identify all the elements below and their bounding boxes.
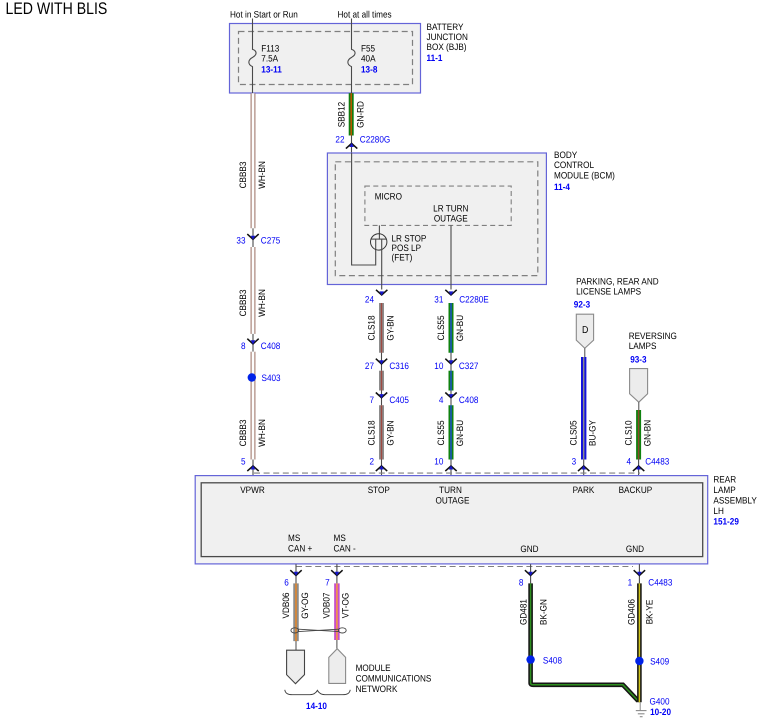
- node TURN OUTAGE: [436, 485, 470, 506]
- svg-text:10: 10: [434, 361, 443, 371]
- pin 3 of rear lamp: [572, 457, 590, 472]
- svg-text:BODY: BODY: [554, 150, 577, 160]
- svg-text:BK-YE: BK-YE: [645, 600, 655, 625]
- wire stem to left network connector: [295, 641, 297, 650]
- svg-text:C405: C405: [389, 395, 409, 405]
- wire into rear lamp pin 3: [583, 460, 585, 477]
- pin 2 of rear lamp: [369, 457, 387, 472]
- svg-text:VPWR: VPWR: [240, 485, 265, 495]
- svg-text:WH-BN: WH-BN: [257, 161, 267, 189]
- wire through C408: [252, 334, 254, 352]
- svg-text:GND: GND: [626, 544, 644, 554]
- wire CLS10 GN-BN: [636, 410, 641, 460]
- pin 24 of BCM: [365, 290, 388, 305]
- svg-text:4: 4: [439, 395, 444, 405]
- network connector right: [329, 649, 346, 684]
- wire below fuse F55: [351, 67, 353, 153]
- svg-text:C327: C327: [459, 361, 479, 371]
- body control module BCM box: [327, 153, 546, 285]
- svg-text:6: 6: [284, 577, 289, 587]
- pin 10 of rear lamp: [434, 457, 456, 472]
- wire VDB06 GY-OG label: [281, 592, 310, 619]
- wire VDB06 GY-OG: [293, 583, 299, 641]
- wire CLS55 GN-BU segment 1 label: [436, 315, 465, 341]
- wire out of pin 6: [295, 564, 297, 583]
- svg-text:POS LP: POS LP: [392, 243, 422, 253]
- svg-text:REVERSING: REVERSING: [629, 331, 677, 341]
- svg-text:7: 7: [325, 577, 330, 587]
- pin 6 of rear lamp: [284, 570, 301, 587]
- wire from connector D: [584, 348, 586, 357]
- svg-text:Hot at all times: Hot at all times: [338, 10, 392, 20]
- wire CLS05 BU-GY: [581, 357, 586, 460]
- MICRO dashed box: [365, 186, 511, 225]
- wire CLS55 GN-BU segment 2: [449, 405, 454, 459]
- svg-text:CBBB3: CBBB3: [238, 420, 248, 447]
- wire into fuse F55: [351, 19, 353, 50]
- wire from pin 22 to FET: [352, 153, 376, 265]
- svg-text:27: 27: [365, 361, 374, 371]
- svg-text:LR TURN: LR TURN: [433, 204, 468, 214]
- svg-text:C2280E: C2280E: [459, 294, 489, 304]
- svg-text:Hot in Start or Run: Hot in Start or Run: [230, 10, 298, 20]
- svg-text:VDB06: VDB06: [281, 593, 291, 619]
- splice S403: [248, 373, 281, 383]
- pin 7 of rear lamp: [325, 570, 342, 587]
- svg-text:GN-BU: GN-BU: [455, 315, 465, 341]
- svg-text:C4483: C4483: [648, 577, 672, 587]
- svg-text:SBB12: SBB12: [336, 102, 346, 127]
- wire through C408 lamp: [450, 391, 452, 406]
- connector C4483 dashed boundary bottom: [296, 566, 633, 568]
- FET label LR STOP POS LP (FET): [392, 233, 427, 262]
- svg-text:GY-BN: GY-BN: [385, 315, 395, 340]
- svg-text:92-3: 92-3: [574, 300, 590, 310]
- svg-text:CLS55: CLS55: [436, 315, 446, 340]
- wire CBBB3 WH-BN segment 3: [251, 352, 255, 460]
- wire CBBB3 WH-BN segment 2 label: [238, 289, 267, 317]
- network connector left: [287, 650, 305, 684]
- pin 8 of rear lamp: [519, 570, 536, 587]
- wire CLS18 GY-BN segment 1 label: [366, 315, 395, 340]
- svg-text:(FET): (FET): [392, 253, 413, 263]
- wire CBBB3 WH-BN segment 1 label: [238, 161, 267, 189]
- svg-text:7: 7: [369, 395, 374, 405]
- svg-text:CBBB3: CBBB3: [238, 290, 248, 317]
- wire into rear lamp pin 5: [252, 460, 254, 477]
- svg-text:MODULE (BCM): MODULE (BCM): [554, 171, 615, 181]
- brace 14-10: [285, 690, 350, 695]
- svg-text:C408: C408: [459, 395, 479, 405]
- rear lamp assembly name label: [713, 474, 757, 526]
- wire into rear lamp pin 10: [450, 460, 452, 477]
- svg-text:LR STOP: LR STOP: [392, 233, 427, 243]
- pin 7 connector C405: [369, 393, 409, 405]
- svg-text:OUTAGE: OUTAGE: [434, 214, 468, 224]
- svg-text:VT-OG: VT-OG: [341, 593, 351, 618]
- wire GY-BN jumper segment: [379, 371, 384, 391]
- svg-text:2: 2: [369, 457, 374, 467]
- svg-text:C4483: C4483: [645, 457, 669, 467]
- svg-text:GD406: GD406: [627, 599, 637, 625]
- node MS CAN +: [288, 533, 312, 554]
- svg-text:S409: S409: [650, 657, 669, 667]
- reversing lamps label: [629, 331, 677, 365]
- op-amp U1 FET circle LR STOP POS LP: [371, 234, 387, 290]
- svg-text:BATTERY: BATTERY: [427, 22, 464, 32]
- svg-text:C408: C408: [261, 341, 281, 351]
- wire through C327: [450, 353, 452, 371]
- svg-text:CLS10: CLS10: [623, 420, 633, 445]
- svg-text:CLS55: CLS55: [436, 420, 446, 445]
- svg-text:3: 3: [572, 457, 577, 467]
- module communications network label: [356, 663, 432, 694]
- wire CLS18 GY-BN segment 2: [379, 405, 384, 459]
- svg-text:13-11: 13-11: [261, 65, 281, 75]
- svg-text:MICRO: MICRO: [375, 192, 402, 202]
- wire GD406 BK-YE: [637, 583, 642, 702]
- wire CLS55 GN-BU segment 1: [449, 303, 454, 353]
- svg-text:8: 8: [519, 577, 524, 587]
- svg-text:CLS05: CLS05: [568, 420, 578, 445]
- svg-text:NETWORK: NETWORK: [356, 684, 399, 694]
- splice S408: [526, 655, 562, 665]
- pin 27 connector C316: [365, 359, 409, 371]
- svg-text:F55: F55: [361, 43, 375, 53]
- wire CLS18 GY-BN segment 1: [379, 303, 384, 353]
- ground G400: [636, 702, 647, 716]
- svg-text:5: 5: [241, 457, 246, 467]
- svg-text:BOX (BJB): BOX (BJB): [427, 42, 467, 52]
- svg-text:1: 1: [628, 577, 633, 587]
- svg-text:CAN -: CAN -: [334, 544, 356, 554]
- svg-text:BK-GN: BK-GN: [538, 599, 548, 625]
- wire CBBB3 WH-BN segment 3 label: [238, 419, 267, 447]
- wire VDB07 VT-OG: [334, 583, 340, 640]
- pin 10 connector C327: [434, 359, 478, 371]
- svg-text:22: 22: [335, 134, 344, 144]
- svg-text:7.5A: 7.5A: [261, 53, 279, 63]
- pin 22 connector C2280G: [335, 134, 390, 148]
- wire CLS55 GN-BU segment 2 label: [436, 420, 465, 446]
- pin 5 of rear lamp: [241, 457, 259, 472]
- svg-text:151-29: 151-29: [713, 517, 738, 527]
- svg-text:10: 10: [434, 457, 443, 467]
- svg-text:CLS18: CLS18: [366, 315, 376, 340]
- svg-text:13-8: 13-8: [361, 65, 377, 75]
- fuse F55: [348, 49, 355, 66]
- connector D parking lamps: [576, 314, 593, 348]
- svg-text:C316: C316: [389, 361, 409, 371]
- svg-text:24: 24: [365, 294, 374, 304]
- BCM name label: [554, 150, 615, 192]
- fuse F55 value label: [361, 43, 377, 74]
- svg-text:REAR: REAR: [713, 474, 736, 484]
- svg-text:WH-BN: WH-BN: [257, 419, 267, 447]
- svg-text:CBBB3: CBBB3: [238, 162, 248, 189]
- svg-text:GN-BU: GN-BU: [455, 420, 465, 446]
- svg-text:COMMUNICATIONS: COMMUNICATIONS: [356, 673, 432, 683]
- svg-text:BACKUP: BACKUP: [619, 485, 653, 495]
- ground G400 label: [650, 696, 672, 717]
- svg-text:LICENSE LAMPS: LICENSE LAMPS: [576, 287, 641, 297]
- svg-text:GND: GND: [520, 544, 538, 554]
- svg-text:40A: 40A: [361, 53, 376, 63]
- fuse F113 value label: [261, 43, 281, 74]
- BJB name label: [427, 22, 468, 63]
- wire GD406 BK-YE label: [627, 599, 655, 625]
- wire CLS05 BU-GY label: [568, 420, 597, 446]
- svg-text:CONTROL: CONTROL: [554, 160, 594, 170]
- wire through C316: [381, 353, 383, 371]
- rear lamp assembly LH box: [195, 476, 708, 564]
- wire through C405: [381, 391, 383, 406]
- svg-text:LAMP: LAMP: [713, 485, 735, 495]
- svg-text:GY-OG: GY-OG: [300, 592, 310, 619]
- pin 4 connector C4483: [627, 457, 670, 472]
- connector C4483 dashed boundary top: [254, 472, 640, 474]
- pin 31 connector C2280E: [434, 290, 488, 305]
- svg-text:PARKING, REAR AND: PARKING, REAR AND: [576, 277, 659, 287]
- svg-text:33: 33: [236, 235, 245, 245]
- svg-text:MS: MS: [288, 533, 300, 543]
- svg-text:93-3: 93-3: [630, 355, 646, 365]
- pin 33 connector C275: [236, 234, 280, 245]
- svg-text:F113: F113: [261, 43, 279, 53]
- wire SBB12 GN-RD label: [336, 101, 365, 128]
- svg-text:CLS18: CLS18: [366, 420, 376, 445]
- svg-text:31: 31: [434, 294, 443, 304]
- wire GD481 BK-GN: [531, 583, 639, 701]
- wire out of pin 1: [638, 564, 640, 583]
- svg-text:GN-RD: GN-RD: [355, 101, 365, 128]
- svg-text:PARK: PARK: [573, 485, 595, 495]
- pin 1 connector C4483 bottom: [628, 570, 673, 587]
- battery junction box BJB: [230, 24, 421, 94]
- svg-text:STOP: STOP: [368, 485, 390, 495]
- svg-text:S403: S403: [262, 373, 281, 383]
- wire out of pin 7: [336, 564, 338, 583]
- wire VDB07 VT-OG label: [322, 593, 351, 619]
- svg-text:4: 4: [627, 457, 632, 467]
- svg-text:G400: G400: [650, 696, 670, 706]
- parking rear and license lamps label: [574, 277, 659, 310]
- svg-text:8: 8: [241, 341, 246, 351]
- svg-text:OUTAGE: OUTAGE: [436, 495, 470, 505]
- wire from reversing connector: [638, 402, 640, 410]
- svg-text:MS: MS: [334, 533, 346, 543]
- svg-text:CAN +: CAN +: [288, 544, 312, 554]
- wire SBB12 GN-RD: [349, 93, 354, 135]
- wire out of pin 8: [530, 564, 532, 583]
- wire below fuse F113: [252, 67, 254, 93]
- connector reversing lamps: [630, 369, 648, 403]
- wire through C275: [252, 228, 254, 247]
- wire GN-BU jumper segment: [449, 371, 454, 391]
- pin 8 connector C408: [241, 339, 280, 351]
- svg-text:11-4: 11-4: [554, 182, 571, 192]
- wire GD481 BK-GN label: [519, 599, 549, 625]
- svg-text:JUNCTION: JUNCTION: [427, 32, 468, 42]
- wire CLS18 GY-BN segment 2 label: [366, 420, 395, 445]
- FET gate wire: [378, 225, 380, 239]
- twisted pair symbol: [291, 628, 346, 633]
- svg-text:11-1: 11-1: [427, 53, 443, 63]
- svg-text:MODULE: MODULE: [356, 663, 391, 673]
- svg-text:TURN: TURN: [439, 485, 462, 495]
- svg-text:S408: S408: [543, 655, 562, 665]
- wire into fuse F113: [252, 19, 254, 50]
- wire into rear lamp pin 2: [381, 460, 383, 477]
- wire CLS10 GN-BN label: [623, 420, 652, 446]
- splice S409: [635, 657, 669, 667]
- svg-text:D: D: [582, 325, 588, 336]
- wire stem to right network connector: [336, 640, 338, 649]
- wire CBBB3 WH-BN segment 1: [251, 93, 255, 228]
- svg-text:10-20: 10-20: [650, 707, 671, 717]
- wire LR TURN OUTAGE to pin 31: [450, 225, 452, 289]
- svg-text:14-10: 14-10: [306, 701, 327, 711]
- svg-text:C2280G: C2280G: [360, 134, 390, 144]
- LR TURN OUTAGE label: [433, 204, 468, 224]
- wire CBBB3 WH-BN segment 2: [251, 247, 255, 334]
- svg-text:GN-BN: GN-BN: [642, 420, 652, 446]
- svg-text:LH: LH: [713, 506, 723, 516]
- svg-text:ASSEMBLY: ASSEMBLY: [713, 496, 757, 506]
- svg-text:LAMPS: LAMPS: [629, 341, 657, 351]
- node MS CAN -: [334, 533, 356, 554]
- svg-text:GD481: GD481: [519, 599, 529, 625]
- svg-text:WH-BN: WH-BN: [257, 289, 267, 317]
- wire into rear lamp pin 4: [638, 460, 640, 477]
- svg-text:LED WITH BLIS: LED WITH BLIS: [6, 0, 108, 18]
- svg-text:BU-GY: BU-GY: [588, 420, 598, 446]
- svg-text:VDB07: VDB07: [322, 593, 332, 619]
- fuse F113: [249, 49, 256, 66]
- svg-text:C275: C275: [261, 235, 281, 245]
- svg-text:GY-BN: GY-BN: [385, 420, 395, 445]
- pin 4 connector C408: [439, 393, 479, 405]
